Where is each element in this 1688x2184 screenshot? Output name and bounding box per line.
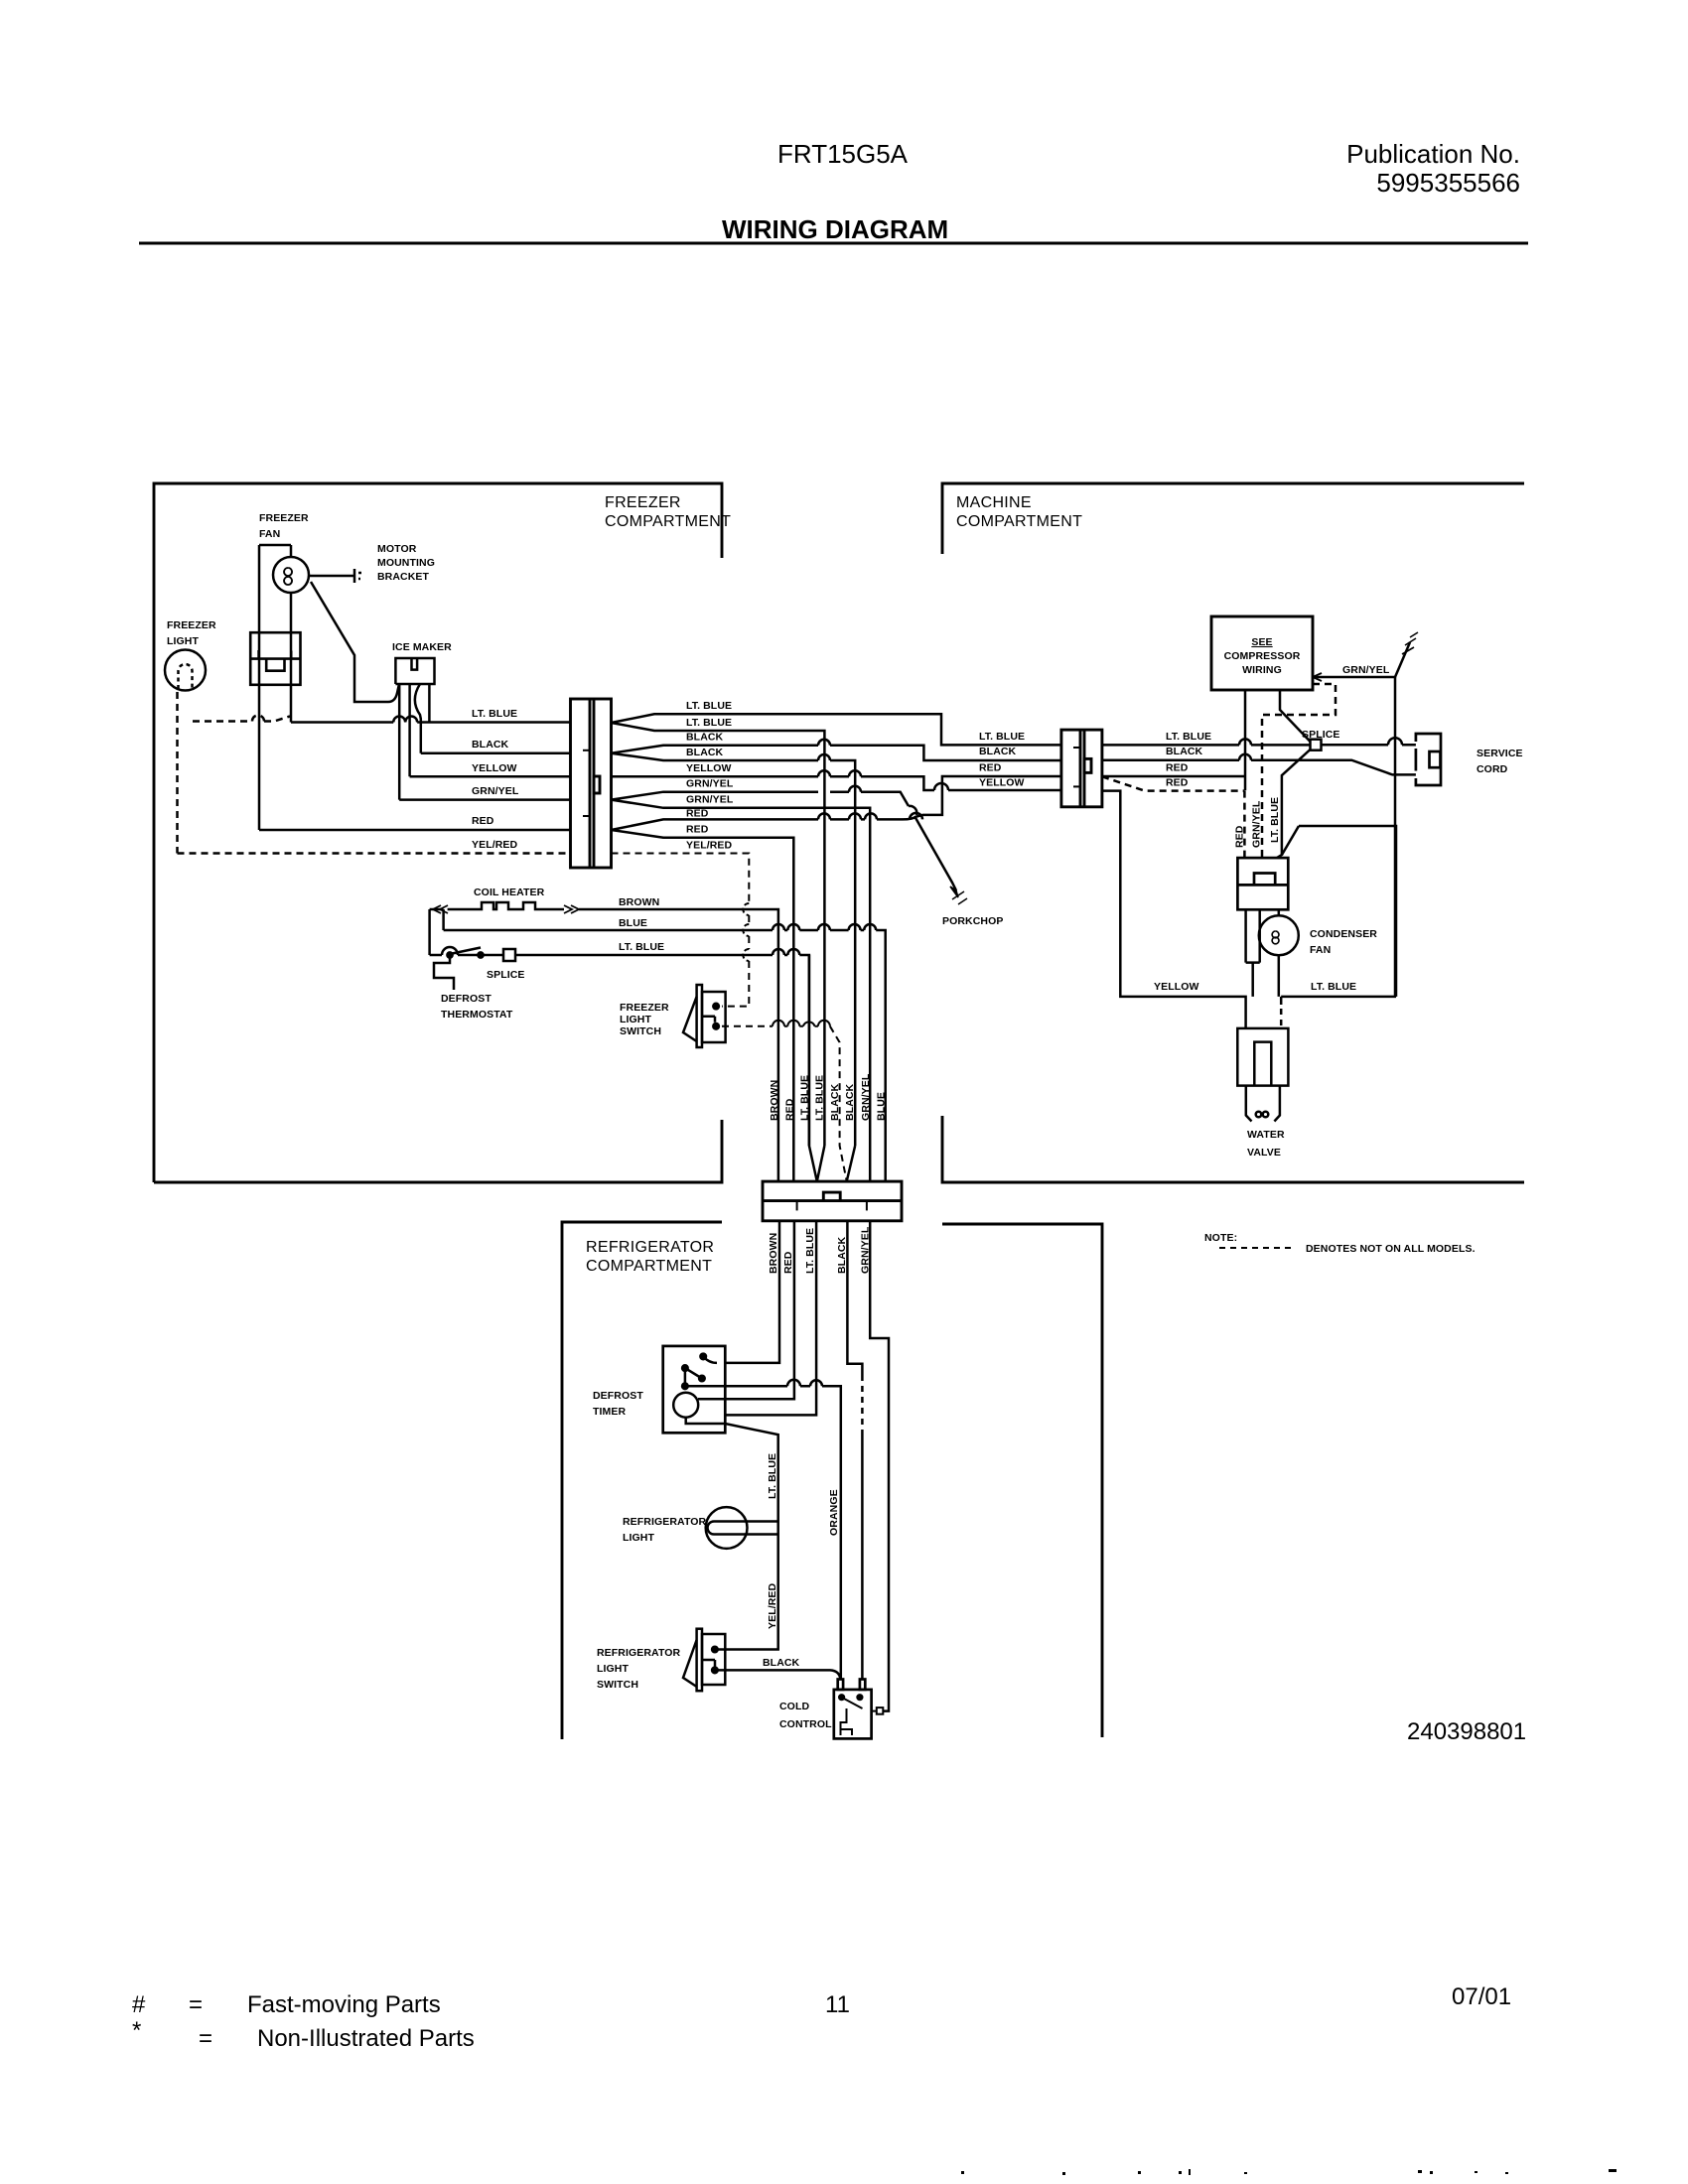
svg-text:LT. BLUE: LT. BLUE [1166, 731, 1211, 743]
svg-text:GRN/YEL: GRN/YEL [860, 1073, 872, 1121]
svg-text:LT. BLUE: LT. BLUE [1311, 981, 1356, 993]
svg-text:YELLOW: YELLOW [686, 762, 732, 774]
svg-text:GRN/YEL: GRN/YEL [860, 1226, 872, 1274]
svg-text:BLUE: BLUE [619, 917, 647, 929]
svg-text:DENOTES NOT ON ALL MODELS.: DENOTES NOT ON ALL MODELS. [1306, 1243, 1476, 1255]
svg-text:BLACK: BLACK [829, 1083, 841, 1121]
svg-text:LT. BLUE: LT. BLUE [472, 708, 517, 720]
svg-text:WATER: WATER [1247, 1129, 1285, 1141]
svg-text:RED: RED [1166, 777, 1189, 789]
svg-text:RED: RED [686, 824, 709, 836]
svg-text:GRN/YEL: GRN/YEL [686, 794, 734, 806]
svg-text:RED: RED [472, 815, 494, 827]
svg-text:YEL/RED: YEL/RED [767, 1582, 778, 1629]
svg-text:MOTOR: MOTOR [377, 543, 417, 555]
svg-text:FREEZER: FREEZER [620, 1002, 669, 1014]
svg-text:RED: RED [784, 1098, 796, 1121]
svg-text:COMPARTMENT: COMPARTMENT [956, 513, 1082, 530]
svg-text:GRN/YEL: GRN/YEL [686, 778, 734, 790]
svg-text:LT. BLUE: LT. BLUE [686, 700, 732, 712]
svg-text:LIGHT: LIGHT [620, 1014, 651, 1025]
svg-text:DEFROST: DEFROST [441, 993, 492, 1005]
svg-text:LT. BLUE: LT. BLUE [799, 1075, 811, 1121]
svg-text:FAN: FAN [259, 528, 280, 540]
svg-text:GRN/YEL: GRN/YEL [1251, 800, 1263, 848]
svg-text:240398801: 240398801 [1407, 1718, 1526, 1745]
svg-text:LT. BLUE: LT. BLUE [686, 717, 732, 729]
svg-text:CORD: CORD [1477, 763, 1508, 775]
svg-text:DEFROST: DEFROST [593, 1390, 643, 1402]
svg-text:BROWN: BROWN [769, 1080, 780, 1121]
svg-text:07/01: 07/01 [1452, 1983, 1511, 2010]
svg-text:BROWN: BROWN [768, 1233, 779, 1274]
svg-text:REFRIGERATOR: REFRIGERATOR [623, 1516, 707, 1528]
svg-text:PORKCHOP: PORKCHOP [942, 915, 1003, 927]
svg-text:BLACK: BLACK [1166, 746, 1203, 757]
svg-text:BRACKET: BRACKET [377, 571, 430, 583]
svg-text:SPLICE: SPLICE [487, 969, 525, 981]
svg-text:BLACK: BLACK [686, 747, 724, 758]
svg-text:LIGHT: LIGHT [597, 1663, 629, 1675]
svg-text:NOTE:: NOTE: [1204, 1232, 1237, 1244]
svg-text:RED: RED [1166, 762, 1189, 774]
svg-text:BLACK: BLACK [836, 1236, 848, 1274]
svg-text:COIL HEATER: COIL HEATER [474, 887, 545, 898]
svg-text:BLACK: BLACK [844, 1083, 856, 1121]
svg-text:BLUE: BLUE [876, 1092, 888, 1121]
svg-text:BROWN: BROWN [619, 896, 659, 908]
svg-text:RED: RED [782, 1251, 794, 1274]
svg-text:REFRIGERATOR: REFRIGERATOR [586, 1239, 714, 1256]
svg-text:FREEZER: FREEZER [605, 494, 681, 511]
svg-text:SPLICE: SPLICE [1302, 729, 1340, 741]
svg-text:BLACK: BLACK [686, 732, 724, 744]
svg-text:*: * [132, 2017, 141, 2044]
svg-text:Publication No.: Publication No. [1346, 139, 1520, 169]
svg-text:Non-Illustrated Parts: Non-Illustrated Parts [257, 2025, 475, 2052]
svg-text:SWITCH: SWITCH [620, 1025, 661, 1037]
svg-text:FRT15G5A: FRT15G5A [777, 139, 909, 169]
svg-text:FREEZER: FREEZER [167, 619, 216, 631]
svg-text:COLD: COLD [779, 1701, 809, 1712]
svg-text:GRN/YEL: GRN/YEL [472, 785, 519, 797]
svg-text:REFRIGERATOR: REFRIGERATOR [597, 1647, 681, 1659]
svg-text:THERMOSTAT: THERMOSTAT [441, 1009, 513, 1021]
svg-text:COMPARTMENT: COMPARTMENT [605, 513, 731, 530]
svg-text:YELLOW: YELLOW [472, 762, 517, 774]
svg-text:FAN: FAN [1310, 944, 1331, 956]
svg-text:SERVICE: SERVICE [1477, 748, 1523, 759]
svg-text:GRN/YEL: GRN/YEL [1342, 664, 1390, 676]
svg-text:RED: RED [686, 808, 709, 820]
svg-text:WIRING DIAGRAM: WIRING DIAGRAM [722, 214, 948, 244]
svg-text:YEL/RED: YEL/RED [686, 840, 733, 852]
svg-text:5995355566: 5995355566 [1376, 168, 1520, 198]
svg-text:Fast-moving Parts: Fast-moving Parts [247, 1991, 441, 2018]
svg-text:WIRING: WIRING [1242, 664, 1282, 676]
svg-text:TIMER: TIMER [593, 1406, 626, 1418]
svg-text:ORANGE: ORANGE [828, 1489, 840, 1536]
svg-text:CONTROL: CONTROL [779, 1718, 832, 1730]
svg-text:RED: RED [979, 762, 1002, 774]
svg-text:VALVE: VALVE [1247, 1147, 1281, 1159]
svg-text:YELLOW: YELLOW [979, 777, 1025, 789]
svg-text:LT. BLUE: LT. BLUE [767, 1453, 778, 1499]
svg-text:YEL/RED: YEL/RED [472, 839, 518, 851]
svg-text:LT. BLUE: LT. BLUE [814, 1075, 826, 1121]
svg-text:MOUNTING: MOUNTING [377, 557, 435, 569]
svg-text:BLACK: BLACK [763, 1657, 800, 1669]
svg-text:=: = [199, 2025, 212, 2052]
svg-text:FREEZER: FREEZER [259, 512, 309, 524]
svg-text:#: # [132, 1991, 146, 2018]
svg-text:YELLOW: YELLOW [1154, 981, 1199, 993]
svg-text:LT. BLUE: LT. BLUE [1269, 797, 1281, 843]
svg-text:LT. BLUE: LT. BLUE [979, 731, 1025, 743]
svg-text:LT. BLUE: LT. BLUE [619, 941, 664, 953]
svg-text:ICE MAKER: ICE MAKER [392, 641, 452, 653]
svg-text:11: 11 [825, 1991, 850, 2018]
svg-text:RED: RED [1234, 825, 1246, 848]
svg-text:MACHINE: MACHINE [956, 494, 1032, 511]
svg-text:SEE: SEE [1251, 636, 1272, 648]
svg-text:BLACK: BLACK [979, 746, 1017, 757]
svg-text:=: = [189, 1991, 203, 2018]
svg-text:BLACK: BLACK [472, 739, 509, 751]
svg-text:CONDENSER: CONDENSER [1310, 928, 1377, 940]
svg-text:COMPRESSOR: COMPRESSOR [1224, 650, 1301, 662]
svg-text:COMPARTMENT: COMPARTMENT [586, 1258, 712, 1275]
svg-text:SWITCH: SWITCH [597, 1679, 638, 1691]
svg-text:LT. BLUE: LT. BLUE [804, 1228, 816, 1274]
svg-text:LIGHT: LIGHT [623, 1532, 654, 1544]
svg-text:LIGHT: LIGHT [167, 635, 199, 647]
